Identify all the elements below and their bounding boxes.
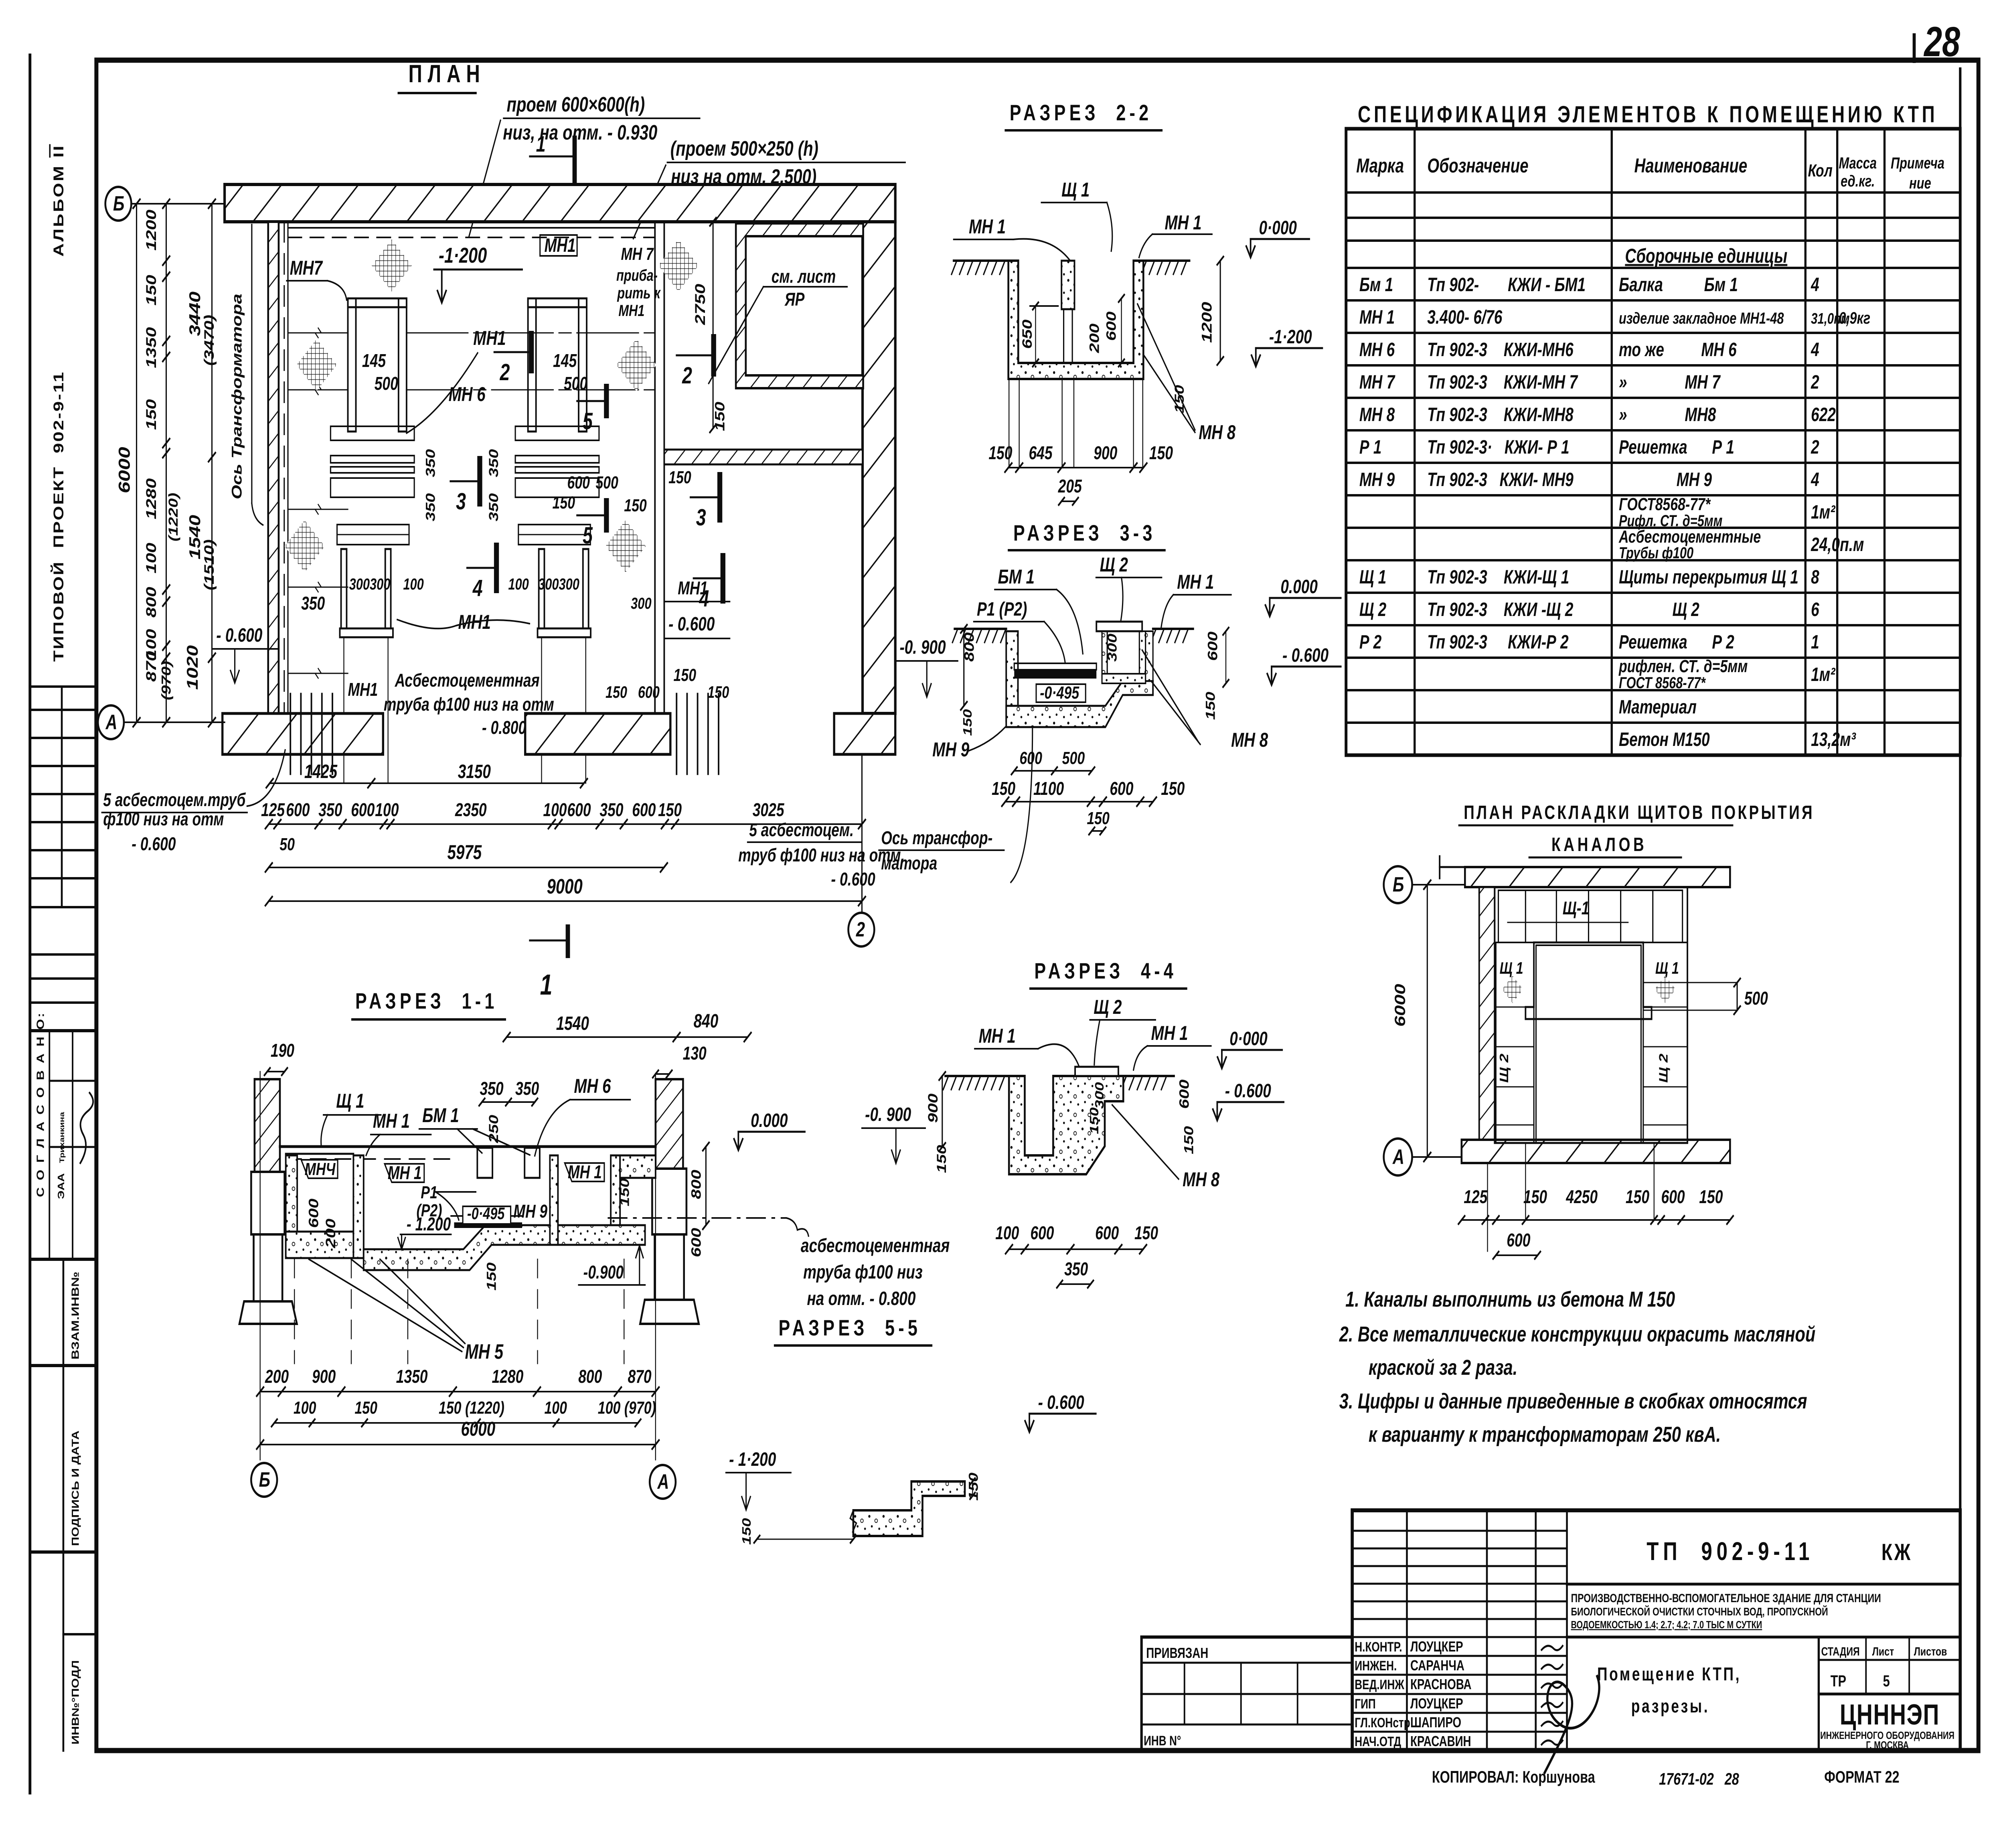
svg-text:МНЧ: МНЧ: [305, 1159, 336, 1179]
svg-text:870: 870: [628, 1366, 651, 1387]
svg-text:100 (970): 100 (970): [598, 1398, 656, 1418]
svg-text:Щ 1: Щ 1: [1061, 179, 1090, 201]
crosshatch plates: [372, 239, 412, 292]
svg-text:МН 1: МН 1: [388, 1163, 422, 1183]
top cover band raskladka: [1465, 867, 1730, 887]
svg-text:350: 350: [486, 449, 501, 477]
svg-text:200: 200: [1087, 323, 1102, 353]
svg-text:Балка Бм 1: Балка Бм 1: [1619, 274, 1738, 296]
svg-text:- 0.600: - 0.600: [831, 869, 875, 890]
left panel column raskladka: [1496, 942, 1534, 1143]
svg-text:300: 300: [1092, 1082, 1106, 1109]
svg-text:3.400- 6/76: 3.400- 6/76: [1427, 306, 1503, 328]
Shch2 slab 3-3: [1096, 622, 1142, 631]
svg-text:ЛОУЦКЕР: ЛОУЦКЕР: [1410, 1696, 1463, 1712]
svg-text:600: 600: [632, 800, 656, 821]
plan middle partition wall: [654, 222, 656, 713]
svg-text:5 асбестоцем.: 5 асбестоцем.: [749, 820, 854, 841]
title block: description: [1567, 1636, 1960, 1639]
svg-text:Наименование: Наименование: [1634, 155, 1748, 177]
svg-text:150: 150: [1087, 1107, 1101, 1134]
svg-text:МН 7: МН 7: [1359, 371, 1395, 393]
svg-text:1020: 1020: [184, 645, 201, 690]
svg-text:5: 5: [583, 408, 593, 434]
svg-text:РАЗРЕЗ 5-5: РАЗРЕЗ 5-5: [778, 1315, 921, 1341]
svg-text:МН 8: МН 8: [1359, 404, 1395, 426]
svg-text:150: 150: [1161, 778, 1185, 799]
svg-text:к варианту к трансформаторам 2: к варианту к трансформаторам 250 квА.: [1369, 1422, 1721, 1447]
svg-text:300: 300: [631, 594, 652, 612]
svg-text:- 1.200: - 1.200: [407, 1214, 451, 1235]
svg-text:600: 600: [1205, 631, 1220, 661]
svg-text:МН 8: МН 8: [1199, 421, 1235, 444]
big signature flourish: [1545, 1676, 1599, 1773]
svg-text:Щ 2: Щ 2: [1657, 1054, 1671, 1083]
svg-text:СПЕЦИФИКАЦИЯ ЭЛЕМЕНТОВ К ПОМЕЩ: СПЕЦИФИКАЦИЯ ЭЛЕМЕНТОВ К ПОМЕЩЕНИЮ КТП: [1358, 101, 1938, 127]
alcove joint lines left room: [288, 332, 348, 334]
svg-text:труба ф100 низ: труба ф100 низ: [803, 1261, 923, 1283]
svg-text:150: 150: [960, 709, 974, 736]
svg-text:(1510): (1510): [202, 539, 217, 590]
svg-text:Сборочные единицы: Сборочные единицы: [1625, 245, 1787, 267]
svg-text:-1·200: -1·200: [439, 243, 487, 267]
sheet outer left trim line: [28, 55, 32, 1793]
svg-text:Р1 (Р2): Р1 (Р2): [977, 598, 1027, 620]
asbestos pipes group right: [676, 694, 678, 774]
svg-text:Щ 1: Щ 1: [1655, 958, 1679, 977]
svg-text:Щ 2: Щ 2: [1094, 996, 1122, 1018]
svg-text:6000: 6000: [1392, 984, 1408, 1027]
svg-text:Р 1: Р 1: [1359, 436, 1381, 458]
svg-text:Р1: Р1: [421, 1183, 437, 1202]
svg-text:3: 3: [696, 504, 706, 530]
svg-text:низ, на отм. - 0.930: низ, на отм. - 0.930: [503, 121, 657, 144]
svg-text:МН 9: МН 9: [932, 739, 969, 761]
svg-text:150: 150: [354, 1398, 377, 1418]
section 4-4 concrete pit: [1009, 1076, 1123, 1174]
MN9 grating 1-1: [454, 1222, 522, 1228]
svg-text:Тп 902-3 КЖИ-МН6: Тп 902-3 КЖИ-МН6: [1427, 339, 1574, 361]
svg-text:-0. 900: -0. 900: [865, 1104, 911, 1125]
svg-text:РАЗРЕЗ 3-3: РАЗРЕЗ 3-3: [1013, 521, 1156, 546]
svg-text:350: 350: [599, 800, 623, 821]
svg-text:100: 100: [375, 800, 399, 821]
svg-text:150 (1220): 150 (1220): [439, 1398, 504, 1418]
svg-text:150: 150: [739, 1518, 753, 1545]
svg-text:600: 600: [689, 1228, 704, 1257]
svg-text:МН 6: МН 6: [1359, 339, 1395, 361]
svg-text:600: 600: [1095, 1223, 1119, 1244]
svg-text:150: 150: [658, 800, 682, 821]
svg-text:» МН8: » МН8: [1619, 404, 1716, 426]
svg-text:3150: 3150: [458, 761, 491, 782]
svg-text:150: 150: [553, 493, 575, 513]
svg-text:100: 100: [544, 1398, 567, 1418]
asbestos pipes group left: [290, 694, 292, 774]
svg-text:4250: 4250: [1566, 1187, 1598, 1208]
svg-text:Решетка Р 1: Решетка Р 1: [1619, 436, 1734, 458]
plan left wall: [268, 222, 279, 713]
svg-text:600: 600: [1104, 311, 1119, 341]
ground lines: [954, 259, 1008, 262]
svg-text:100: 100: [143, 543, 159, 573]
svg-text:800: 800: [578, 1366, 602, 1387]
svg-text:Асбестоцементная: Асбестоцементная: [395, 670, 540, 691]
svg-text:28: 28: [1923, 18, 1960, 65]
svg-text:5: 5: [583, 522, 593, 548]
svg-text:4: 4: [472, 575, 483, 601]
bottom footing right: [834, 713, 895, 754]
svg-text:2: 2: [856, 918, 865, 941]
svg-text:600: 600: [306, 1198, 321, 1228]
svg-text:Трубы ф100: Трубы ф100: [1619, 544, 1693, 562]
svg-text:600: 600: [1661, 1187, 1685, 1208]
right column 1-1: [656, 1079, 683, 1169]
svg-text:Щ 1: Щ 1: [336, 1090, 364, 1112]
svg-text:- 0.600: - 0.600: [132, 834, 176, 855]
inner opening raskladka: [1525, 942, 1651, 1019]
svg-text:А: А: [1392, 1145, 1404, 1168]
below-floor lines 2-2: [1009, 379, 1010, 467]
svg-text:150: 150: [674, 665, 697, 685]
title block: privyazan box: [1142, 1635, 1352, 1639]
svg-text:краской за 2 раза.: краской за 2 раза.: [1369, 1356, 1517, 1380]
svg-text:ТП 902-9-11: ТП 902-9-11: [1647, 1537, 1814, 1566]
svg-text:1540: 1540: [187, 515, 204, 559]
svg-text:(1220): (1220): [166, 493, 180, 541]
svg-text:600: 600: [1110, 778, 1133, 799]
channel section walls 2-2: [1009, 261, 1144, 379]
svg-text:1350: 1350: [143, 327, 159, 368]
svg-text:150: 150: [1087, 808, 1110, 828]
inner room (sm. list AR) with hatched walls: [736, 223, 863, 388]
svg-text:КРАСНОВА: КРАСНОВА: [1410, 1676, 1472, 1692]
right bay upper walls: [528, 298, 536, 432]
svg-text:1280: 1280: [492, 1366, 524, 1387]
svg-text:205: 205: [1058, 476, 1082, 497]
svg-text:870: 870: [143, 651, 159, 682]
svg-text:МН 7: МН 7: [621, 244, 654, 264]
svg-text:9000: 9000: [547, 875, 583, 898]
svg-text:350: 350: [423, 493, 437, 521]
svg-text:Щ 2: Щ 2: [1359, 599, 1387, 620]
svg-text:ние: ние: [1909, 174, 1931, 192]
right bay rails: [515, 426, 599, 440]
svg-text:ф100 низ на отм: ф100 низ на отм: [103, 809, 224, 830]
svg-text:РАЗРЕЗ 2-2: РАЗРЕЗ 2-2: [1010, 100, 1152, 126]
svg-text:150: 150: [712, 401, 727, 431]
svg-text:(проем 500×250 (h): (проем 500×250 (h): [670, 137, 818, 160]
svg-text:САРАНЧА: САРАНЧА: [1410, 1658, 1464, 1674]
page number 28: [1912, 35, 1916, 61]
svg-text:- 0.600: - 0.600: [1225, 1080, 1271, 1102]
svg-text:РАЗРЕЗ 4-4: РАЗРЕЗ 4-4: [1034, 958, 1177, 984]
svg-text:900: 900: [312, 1366, 336, 1387]
svg-text:2: 2: [500, 359, 510, 385]
svg-text:2: 2: [1811, 436, 1819, 458]
svg-text:100: 100: [403, 575, 424, 593]
svg-text:ТР: ТР: [1831, 1672, 1846, 1690]
svg-text:200: 200: [323, 1218, 338, 1248]
svg-text:МН 1: МН 1: [1165, 212, 1201, 234]
svg-text:3440: 3440: [187, 292, 204, 336]
svg-text:Б: Б: [1393, 873, 1404, 896]
plan top wall (hatched): [225, 184, 895, 222]
svg-text:600: 600: [1177, 1079, 1192, 1109]
left bay lower walls: [341, 549, 347, 628]
left bay rails: [330, 426, 414, 440]
svg-text:4: 4: [1811, 274, 1819, 296]
svg-text:150: 150: [1149, 443, 1173, 464]
svg-text:600: 600: [567, 473, 590, 492]
svg-text:труба ф100 низ на отм: труба ф100 низ на отм: [384, 694, 554, 715]
svg-text:-0·495: -0·495: [467, 1204, 505, 1223]
ground 4-4: [945, 1075, 1009, 1077]
svg-text:150: 150: [143, 275, 159, 306]
svg-text:Тп 902-3· КЖИ- Р 1: Тп 902-3· КЖИ- Р 1: [1427, 436, 1569, 458]
svg-text:130: 130: [683, 1043, 707, 1064]
svg-text:6000: 6000: [461, 1418, 495, 1440]
svg-text:350: 350: [423, 449, 437, 477]
svg-text:МН7: МН7: [290, 257, 323, 279]
svg-text:МН 9: МН 9: [1619, 469, 1712, 490]
svg-text:650: 650: [1020, 319, 1035, 349]
svg-text:матора: матора: [881, 853, 937, 874]
svg-text:ПЛАН: ПЛАН: [408, 60, 485, 87]
svg-text:МН 1: МН 1: [568, 1162, 602, 1183]
svg-text:БМ 1: БМ 1: [998, 566, 1034, 588]
svg-text:А: А: [657, 1470, 669, 1493]
svg-text:- 0.600: - 0.600: [216, 624, 262, 646]
svg-text:900: 900: [1094, 443, 1117, 464]
svg-text:500: 500: [595, 473, 618, 492]
svg-text:А: А: [105, 710, 117, 734]
svg-text:ПЛАН РАСКЛАДКИ ЩИТОВ ПОКРЫТИЯ: ПЛАН РАСКЛАДКИ ЩИТОВ ПОКРЫТИЯ: [1464, 802, 1815, 823]
svg-text:100: 100: [543, 800, 567, 821]
svg-text:МН 8: МН 8: [1231, 729, 1268, 751]
svg-text:500: 500: [1062, 748, 1085, 768]
svg-text:ВЕД.ИНЖ: ВЕД.ИНЖ: [1355, 1678, 1404, 1692]
svg-text:2750: 2750: [692, 284, 708, 326]
svg-text:1м²: 1м²: [1811, 664, 1836, 685]
svg-text:Щ 1: Щ 1: [1359, 566, 1386, 588]
svg-text:ИНВ N°: ИНВ N°: [1144, 1734, 1181, 1749]
svg-text:Тп 902-3 КЖИ-Р 2: Тп 902-3 КЖИ-Р 2: [1427, 631, 1568, 653]
svg-text:Бетон М150: Бетон М150: [1619, 729, 1710, 750]
svg-text:Масса: Масса: [1839, 154, 1877, 172]
svg-text:БИОЛОГИЧЕСКОЙ ОЧИСТКИ СТОЧНЫХ: БИОЛОГИЧЕСКОЙ ОЧИСТКИ СТОЧНЫХ ВОД, ПРОПУ…: [1571, 1605, 1828, 1618]
svg-text:на отм. - 0.800: на отм. - 0.800: [807, 1288, 915, 1309]
svg-text:4: 4: [1811, 469, 1819, 490]
svg-text:МН 5: МН 5: [465, 1340, 504, 1363]
svg-text:КЖ: КЖ: [1881, 1539, 1912, 1565]
svg-text:645: 645: [1029, 443, 1053, 464]
P1 grating bars: [1014, 663, 1096, 670]
svg-text:НАЧ.ОТД: НАЧ.ОТД: [1355, 1735, 1401, 1749]
svg-text:Ось трансфор-: Ось трансфор-: [881, 828, 992, 849]
svg-text:рифлен. СТ. д=5мм: рифлен. СТ. д=5мм: [1618, 657, 1748, 676]
svg-text:300: 300: [1105, 634, 1119, 662]
svg-text:100: 100: [294, 1398, 316, 1418]
middle partition 2-2: [1061, 261, 1074, 309]
svg-text:Триханкина: Триханкина: [59, 1111, 66, 1163]
svg-text:см. лист: см. лист: [772, 266, 836, 287]
plan right wall: [863, 222, 895, 713]
ground level line 1-1: [280, 1145, 656, 1148]
svg-text:ВЗАМ.ИНВ№: ВЗАМ.ИНВ№: [70, 1272, 81, 1360]
svg-text:Тп 902- КЖИ - БМ1: Тп 902- КЖИ - БМ1: [1427, 274, 1586, 296]
svg-text:150: 150: [606, 683, 627, 701]
svg-text:5975: 5975: [448, 841, 482, 863]
svg-text:Ось Трансформатора: Ось Трансформатора: [229, 294, 245, 499]
svg-text:труб ф100 низ на отм.: труб ф100 низ на отм.: [738, 845, 905, 866]
svg-text:1. Каналы выполнить из бетона: 1. Каналы выполнить из бетона М 150: [1345, 1287, 1675, 1311]
right bay lower walls: [539, 549, 545, 628]
svg-text:6: 6: [1811, 599, 1820, 620]
svg-text:350: 350: [515, 1078, 539, 1099]
svg-text:Бм 1: Бм 1: [1359, 274, 1393, 296]
Shch2 slab 4-4: [1075, 1067, 1118, 1076]
svg-text:800: 800: [689, 1169, 704, 1199]
svg-text:Щ 2: Щ 2: [1619, 599, 1699, 620]
svg-text:МН 8: МН 8: [1183, 1169, 1219, 1191]
section 3-3 concrete: [1006, 631, 1018, 721]
svg-text:МН 1: МН 1: [969, 216, 1006, 238]
svg-text:изделие закладное МН1-48: изделие закладное МН1-48: [1619, 309, 1784, 327]
svg-text:600: 600: [286, 800, 310, 821]
svg-text:МН 1: МН 1: [979, 1025, 1016, 1047]
svg-text:- 0.600: - 0.600: [1282, 644, 1329, 666]
svg-text:5 асбестоцем.труб: 5 асбестоцем.труб: [103, 790, 246, 811]
drop lines from bays to dims: [343, 637, 344, 783]
svg-text:150: 150: [988, 443, 1012, 464]
svg-text:Примеча: Примеча: [1891, 154, 1944, 172]
svg-text:1: 1: [540, 969, 553, 1001]
svg-text:С О Г Л А С О В А Н О:: С О Г Л А С О В А Н О:: [35, 1011, 46, 1197]
svg-text:МН1: МН1: [678, 578, 708, 599]
svg-text:1350: 1350: [396, 1366, 428, 1387]
svg-text:0,9кг: 0,9кг: [1839, 308, 1871, 327]
svg-text:150: 150: [1134, 1223, 1158, 1244]
svg-text:800: 800: [143, 587, 159, 618]
svg-text:50: 50: [279, 835, 295, 854]
svg-text:ИНВ№°ПОДЛ: ИНВ№°ПОДЛ: [70, 1660, 81, 1745]
svg-text:500: 500: [564, 373, 587, 394]
svg-text:350: 350: [1064, 1259, 1088, 1280]
BM1 beams: [477, 1148, 492, 1178]
svg-text:-1·200: -1·200: [1269, 326, 1312, 348]
svg-text:то же МН 6: то же МН 6: [1619, 339, 1737, 361]
svg-text:- 0.600: - 0.600: [1038, 1392, 1084, 1413]
svg-text:300300: 300300: [538, 575, 579, 593]
svg-text:ГОСТ 8568-77*: ГОСТ 8568-77*: [1619, 674, 1706, 692]
svg-text:Листов: Листов: [1914, 1645, 1947, 1658]
svg-text:-0. 900: -0. 900: [899, 636, 946, 658]
svg-text:150: 150: [1181, 1126, 1196, 1154]
svg-text:ГИП: ГИП: [1355, 1697, 1375, 1712]
inner right margin line: [1958, 69, 1962, 1751]
svg-text:ЯР: ЯР: [784, 289, 805, 310]
bottom band raskladka: [1462, 1140, 1730, 1163]
step section 5-5: [853, 1481, 965, 1536]
svg-text:(3470): (3470): [202, 315, 217, 366]
svg-text:Обозначение: Обозначение: [1427, 155, 1528, 177]
svg-text:100: 100: [995, 1223, 1019, 1244]
svg-text:350: 350: [480, 1078, 503, 1099]
svg-text:1200: 1200: [1199, 302, 1215, 343]
svg-text:Материал: Материал: [1619, 696, 1697, 718]
svg-text:100: 100: [508, 575, 529, 593]
svg-text:150: 150: [1699, 1187, 1723, 1208]
svg-text:разрезы.: разрезы.: [1631, 1696, 1709, 1717]
channel concrete 1-1: [286, 1155, 298, 1258]
svg-text:Щ 2: Щ 2: [1497, 1054, 1511, 1083]
svg-text:- 0.800: - 0.800: [482, 717, 526, 738]
svg-text:190: 190: [271, 1040, 294, 1061]
svg-text:ПРОИЗВОДСТВЕННО-ВСПОМОГАТЕЛЬНО: ПРОИЗВОДСТВЕННО-ВСПОМОГАТЕЛЬНОЕ ЗДАНИЕ Д…: [1571, 1591, 1881, 1605]
svg-text:ЭАА: ЭАА: [56, 1173, 67, 1199]
svg-text:5: 5: [1883, 1672, 1890, 1690]
svg-text:Решетка Р 2: Решетка Р 2: [1619, 631, 1734, 653]
svg-text:ЦНННЭП: ЦНННЭП: [1840, 1698, 1940, 1731]
svg-text:- 1·200: - 1·200: [729, 1449, 776, 1470]
svg-text:ед.кг.: ед.кг.: [1841, 172, 1875, 190]
svg-text:1425: 1425: [304, 761, 338, 782]
svg-text:Рифл. СТ. д=5мм: Рифл. СТ. д=5мм: [1619, 512, 1722, 530]
svg-text:Щ-1: Щ-1: [1563, 898, 1590, 919]
svg-text:150: 150: [966, 1473, 980, 1501]
panels outline raskladka: [1495, 887, 1687, 1143]
svg-text:Тп 902-3 КЖИ- МН9: Тп 902-3 КЖИ- МН9: [1427, 469, 1574, 490]
svg-text:МН1: МН1: [348, 679, 378, 700]
svg-text:Щ 1: Щ 1: [1500, 958, 1523, 977]
svg-text:Г. МОСКВА: Г. МОСКВА: [1866, 1739, 1909, 1751]
left wall band raskladka: [1479, 887, 1495, 1147]
svg-text:ШАПИРО: ШАПИРО: [1410, 1714, 1461, 1730]
svg-text:Кол: Кол: [1808, 161, 1832, 180]
svg-text:8: 8: [1811, 566, 1819, 588]
svg-text:Р 2: Р 2: [1359, 631, 1382, 653]
svg-text:Тп 902-3 КЖИ-МН 7: Тп 902-3 КЖИ-МН 7: [1427, 371, 1578, 393]
axis circle 2: [861, 754, 863, 911]
corridor hatched wall right part: [664, 450, 863, 464]
left column 1-1: [255, 1079, 280, 1172]
svg-text:Тп 902-3 КЖИ-Щ 1: Тп 902-3 КЖИ-Щ 1: [1427, 566, 1569, 588]
svg-text:МН 9: МН 9: [513, 1201, 547, 1222]
svg-text:3025: 3025: [753, 800, 785, 821]
svg-text:3: 3: [456, 488, 466, 514]
svg-text:500: 500: [375, 373, 398, 394]
svg-text:Тп 902-3 КЖИ -Щ 2: Тп 902-3 КЖИ -Щ 2: [1427, 599, 1573, 620]
svg-text:1280: 1280: [143, 478, 159, 519]
plan left dims: [105, 187, 132, 221]
ground 3-3: [955, 628, 1007, 630]
svg-text:125: 125: [1464, 1187, 1488, 1208]
svg-text:1540: 1540: [556, 1013, 589, 1034]
svg-text:300300: 300300: [349, 575, 391, 593]
svg-text:150: 150: [668, 468, 691, 487]
svg-text:1м²: 1м²: [1811, 501, 1836, 523]
svg-text:3. Цифры и данные приведенные: 3. Цифры и данные приведенные в скобках …: [1339, 1389, 1807, 1413]
svg-text:Щиты перекрытия Щ 1: Щиты перекрытия Щ 1: [1619, 566, 1798, 588]
svg-text:600: 600: [567, 800, 591, 821]
svg-text:Щ 2: Щ 2: [1100, 554, 1128, 576]
svg-text:200: 200: [265, 1366, 289, 1387]
svg-text:ТИПОВОЙ ПРОЕКТ 902-9-11: ТИПОВОЙ ПРОЕКТ 902-9-11: [51, 371, 67, 662]
svg-text:2. Все металлические конструкц: 2. Все металлические конструкции окрасит…: [1339, 1322, 1815, 1346]
svg-text:- 0.600: - 0.600: [668, 613, 715, 635]
svg-text:4: 4: [1811, 339, 1819, 361]
